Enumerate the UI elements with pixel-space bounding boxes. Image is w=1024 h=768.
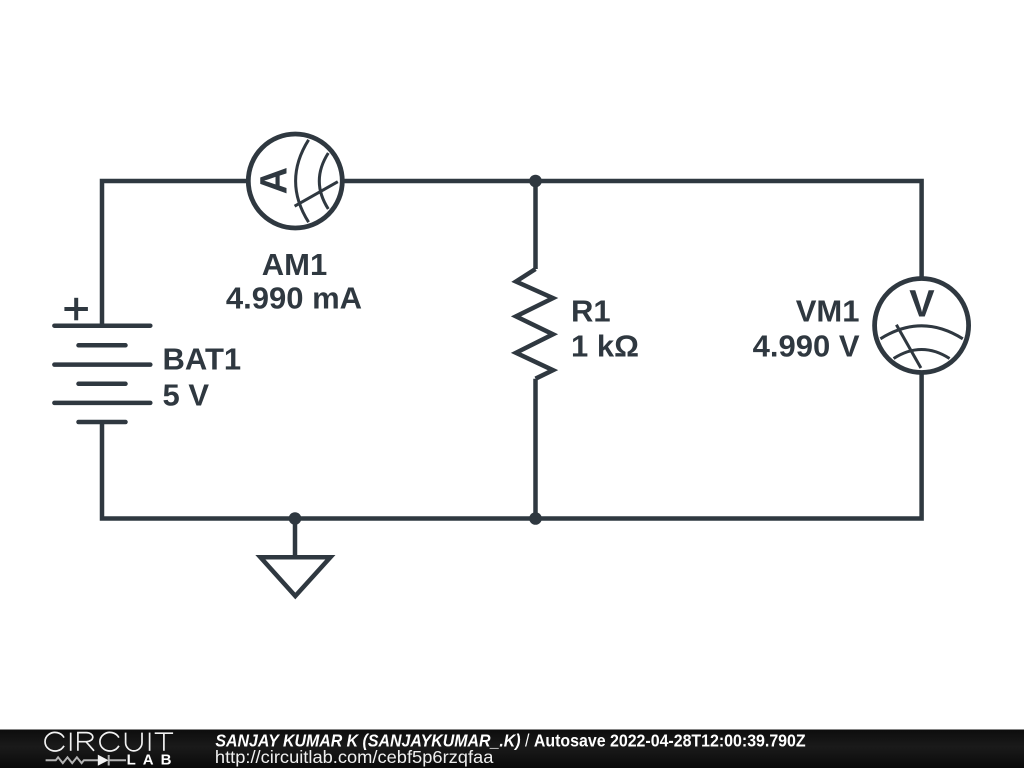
svg-text:http://circuitlab.com/cebf5p6r: http://circuitlab.com/cebf5p6rzqfaa: [215, 748, 494, 768]
svg-text:AM1: AM1: [262, 247, 327, 282]
svg-text:V: V: [909, 284, 935, 326]
ammeter AM1: [248, 134, 342, 228]
node junction dot at R1 bottom: [529, 512, 542, 525]
voltmeter VM1: [875, 279, 969, 373]
wire R1 top lead: [533, 181, 538, 269]
svg-text:VM1: VM1: [796, 294, 860, 329]
wire node R1 top to voltmeter top: [536, 181, 922, 280]
svg-text:1 kΩ: 1 kΩ: [571, 329, 639, 364]
svg-text:5 V: 5 V: [163, 378, 210, 413]
node junction dot at ground: [289, 512, 302, 525]
svg-text:4.990 mA: 4.990 mA: [226, 281, 362, 316]
wire voltmeter bottom to bottom rail to battery-: [102, 371, 922, 519]
svg-text:4.990 V: 4.990 V: [753, 329, 860, 364]
node junction dot at R1 top: [529, 175, 542, 188]
wire ground stub: [293, 519, 298, 558]
footer logo CIRCUIT: [45, 732, 173, 751]
resistor R1: [516, 269, 553, 379]
footer logo diode triangle: [98, 755, 109, 766]
wire battery+ to ammeter left: [102, 181, 250, 327]
footer logo resistor-diode squiggle: [46, 755, 126, 766]
svg-text:BAT1: BAT1: [163, 342, 242, 377]
ground: [260, 557, 330, 596]
svg-text:R1: R1: [571, 294, 611, 329]
battery plus sign: [64, 298, 88, 321]
battery BAT1: [54, 326, 150, 422]
footer bar: [0, 730, 1024, 768]
wire R1 bottom lead: [533, 379, 538, 519]
svg-text:A: A: [253, 167, 295, 194]
wire ammeter right to node at R1 top: [341, 179, 536, 184]
svg-text:LAB: LAB: [127, 752, 179, 768]
